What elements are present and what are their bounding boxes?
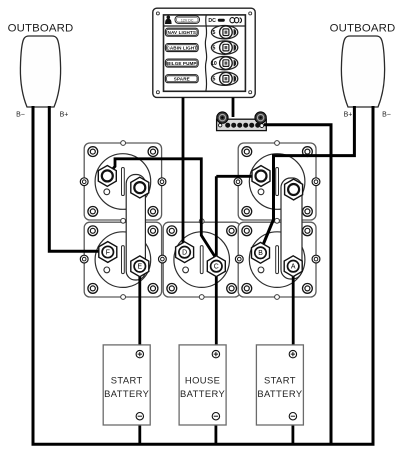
panel switch label BILGE PUMP — [165, 59, 198, 67]
svg-text:D: D — [182, 250, 187, 257]
svg-text:DC: DC — [208, 18, 216, 24]
link bar joining top-left and bottom-left switch studs — [126, 175, 145, 281]
svg-text:OUTBOARD: OUTBOARD — [8, 23, 74, 35]
svg-text:5: 5 — [212, 30, 215, 36]
svg-text:BATTERY: BATTERY — [257, 388, 303, 399]
battery switch unit bottom-right — [238, 222, 316, 297]
wire: left start battery - to negative bus — [138, 420, 141, 445]
wire: panel negative to bus bar — [232, 97, 235, 117]
right outboard motor label — [330, 23, 396, 35]
svg-text:B−: B− — [16, 112, 25, 119]
panel logo icon — [165, 15, 172, 24]
top-left switch upper stud — [98, 166, 116, 187]
svg-text:F: F — [106, 249, 110, 256]
stud C — [207, 256, 225, 277]
svg-text:10: 10 — [211, 61, 217, 67]
right start battery + terminal — [289, 350, 296, 357]
wire: left outboard B+ to stud F — [49, 106, 101, 251]
svg-text:C: C — [214, 264, 219, 271]
panel rocker switch 1 (5A fuse) — [211, 26, 237, 39]
top-right switch lower stud — [285, 179, 303, 200]
panel rocker switch 4 (5A fuse) — [211, 72, 237, 85]
svg-text:NAV LIGHTS: NAV LIGHTS — [168, 30, 196, 35]
left start battery — [103, 345, 150, 425]
left start battery - terminal — [136, 413, 143, 420]
stud A — [284, 256, 302, 277]
negative bus bar — [217, 112, 267, 131]
svg-text:B+: B+ — [60, 112, 69, 119]
wire: left outboard B- / battery negatives / right outboard B- bottom bus — [33, 106, 373, 444]
panel switch label NAV LIGHTS — [165, 28, 198, 36]
panel DC MAIN text — [208, 18, 224, 24]
panel brand logo — [230, 18, 242, 23]
svg-text:5: 5 — [212, 77, 215, 83]
svg-text:START: START — [111, 375, 143, 386]
right outboard B+ terminal label — [344, 112, 353, 119]
svg-text:A: A — [291, 264, 296, 271]
left outboard B- terminal label — [16, 112, 25, 119]
panel switch label CABIN LIGHT — [165, 44, 198, 52]
left outboard motor label — [8, 23, 74, 35]
svg-text:OUTBOARD: OUTBOARD — [330, 23, 396, 35]
wire: right outboard B+ to stud B — [262, 106, 355, 249]
right start battery - terminal — [289, 413, 296, 420]
stud B — [252, 242, 270, 263]
house battery + terminal — [212, 350, 219, 357]
right start battery — [256, 345, 303, 425]
left outboard B+ terminal label — [60, 112, 69, 119]
switch panel housing — [153, 8, 255, 97]
top-left switch lower stud — [131, 177, 149, 198]
right outboard B- terminal label — [382, 112, 391, 119]
svg-text:B+: B+ — [344, 112, 353, 119]
svg-text:B: B — [258, 250, 263, 257]
top-right switch upper stud — [252, 166, 270, 187]
link bar joining top-right and bottom-right switch studs — [281, 178, 302, 279]
mounting ears on switch plate edges — [80, 178, 320, 263]
svg-text:12V DC: 12V DC — [181, 18, 194, 22]
svg-text:5: 5 — [212, 46, 215, 52]
svg-text:SPARE: SPARE — [174, 77, 190, 82]
svg-text:START: START — [264, 375, 296, 386]
battery switch unit bottom-middle — [163, 222, 240, 297]
battery switch unit top-right — [238, 143, 316, 220]
panel rocker switch 2 (5A fuse) — [211, 41, 237, 54]
stud D — [176, 242, 194, 263]
panel label button — [175, 16, 200, 23]
svg-text:CABIN LIGHT: CABIN LIGHT — [166, 45, 197, 50]
svg-text:BATTERY: BATTERY — [180, 388, 226, 399]
svg-text:E: E — [137, 264, 142, 271]
wire: stud E down to left start battery + — [138, 266, 141, 351]
wire: right start battery - to negative bus — [291, 420, 294, 445]
alignment holes on switch plate edges — [121, 141, 280, 300]
svg-text:B−: B− — [382, 112, 391, 119]
house battery — [179, 345, 226, 425]
battery switch unit bottom-left — [84, 222, 161, 297]
wire: top-left switch stud to stud C — [110, 159, 216, 258]
svg-text:BATTERY: BATTERY — [104, 388, 150, 399]
left start battery + terminal — [136, 350, 143, 357]
panel rocker switch 3 (10A fuse) — [211, 56, 238, 69]
wire: stud C down to house battery + — [215, 176, 218, 351]
battery switch unit top-left — [84, 143, 161, 220]
wire: panel feed to stud D — [182, 97, 185, 246]
left outboard motor cowl — [20, 36, 60, 107]
right outboard motor cowl — [341, 36, 384, 107]
stud E — [131, 256, 149, 277]
svg-text:BILGE PUMP: BILGE PUMP — [167, 61, 197, 66]
wire: stud C up to top-right switch stud — [216, 175, 252, 178]
wire: stud A down to right start battery + — [292, 266, 295, 351]
wire: bus bar to bottom negative bus — [264, 125, 331, 444]
panel switch label SPARE — [165, 75, 198, 83]
stud F — [99, 242, 117, 263]
house battery - terminal — [212, 413, 219, 420]
svg-text:HOUSE: HOUSE — [185, 375, 220, 386]
wire: house battery - to negative bus — [214, 420, 217, 445]
